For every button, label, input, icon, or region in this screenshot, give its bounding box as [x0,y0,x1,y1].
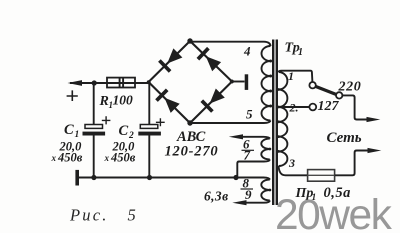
diode VD bottom-right (cathode toward bottom node) [202,89,225,112]
node: pin7 junction on rail [233,175,238,180]
svg-text:120-270: 120-270 [165,144,219,160]
wire: bridge bottom node to pin 5 [190,121,271,124]
node: bridge left [147,80,151,84]
node: bridge bottom [187,120,192,125]
svg-text:3: 3 [288,156,295,170]
svg-text:450в: 450в [57,151,83,165]
svg-text:6,3в: 6,3в [204,189,229,204]
terminal bar: minus output (left end of bottom rail) [75,170,79,186]
label Tr1 [285,41,304,59]
switch blade [316,86,337,94]
node: C1 on rail [91,175,96,180]
node: C2 on rail [147,175,152,180]
node: bridge top [187,38,192,43]
wire: + output lead (top left, y=83) [70,82,107,84]
arrow: mains lower [368,148,382,153]
svg-text:1: 1 [298,47,303,58]
transformer Tr1 winding 6-7 [261,139,270,160]
fuse Pr1 [308,170,335,182]
svg-text:450в: 450в [110,151,136,165]
svg-text:x: x [104,153,110,163]
svg-text:Рис.5: Рис.5 [69,206,136,225]
wire: bottom minus rail [79,178,270,180]
diode VD top-left (cathode toward left node) [159,48,182,71]
svg-text:5: 5 [246,107,253,122]
svg-text:1: 1 [288,69,294,83]
wire: bridge right node to terminal bar [232,81,245,83]
bridge rectifier ABC 120-270 : diamond [149,41,233,123]
switch contact circle pin1 (220 feed) [309,82,315,88]
plus sign at + output [67,90,78,101]
svg-text:220: 220 [338,80,362,95]
node: bridge right [230,80,234,84]
resistor R1 [107,78,135,88]
svg-text:Сеть: Сеть [327,130,362,146]
wire: pin 2 lead to switch contact [279,106,310,108]
svg-text:100: 100 [113,93,134,108]
switch contact circle output [336,92,342,98]
wire: switch output to mains arrow (upper) [342,95,369,119]
svg-text:C: C [64,122,74,138]
svg-text:R: R [99,94,109,109]
wire: R1 to bridge left node [83,82,149,84]
label pins 6/7 [243,137,251,163]
diode VD top-right (cathode toward top node) [198,48,221,71]
transformer core [273,40,277,206]
label C1 [51,122,83,165]
label ABC 120-270 [165,129,219,160]
switch contact circle pin2 (127) [309,104,316,111]
wire: pin 7 to rail [237,160,269,177]
primary winding cusp knots [277,88,280,153]
transformer Tr1 primary winding (1-2-3) [279,72,288,166]
svg-text:127: 127 [318,99,340,114]
svg-text:C: C [119,123,129,139]
label Pr1 0,5a [295,185,351,203]
svg-text:x: x [51,153,57,163]
wire: pin 3 lead to fuse [279,166,308,175]
transformer Tr1 winding 4-5 (secondary to bridge) [262,46,271,121]
wire: pin 1 lead to switch contact [279,71,313,82]
wire: pin 9 lead with arrow [244,201,270,203]
wire: bridge top node to pin 4 [190,42,271,46]
arrow: mains upper [367,117,381,122]
transformer Tr1 winding 8-9 [261,180,270,201]
svg-text:1: 1 [75,130,80,140]
label C2 [104,123,136,165]
node: junction of +wire and C1 [92,80,97,85]
winding 4-5 cusp knots [269,60,272,108]
svg-text:4: 4 [243,44,251,59]
svg-text:2.: 2. [289,101,299,115]
svg-text:20wek: 20wek [275,192,393,233]
diode VD bottom-left (cathode toward left node) [157,90,180,113]
wire: pin 6 lead with arrow [241,137,270,139]
capacitor C1 [83,83,111,178]
capacitor C2 [138,83,164,178]
label R1 100 [99,93,134,111]
label pins 8/9 [243,176,253,203]
arrow: + output arrow head [68,80,83,86]
terminal bar at bridge right (minus of rectifier) [245,74,249,90]
